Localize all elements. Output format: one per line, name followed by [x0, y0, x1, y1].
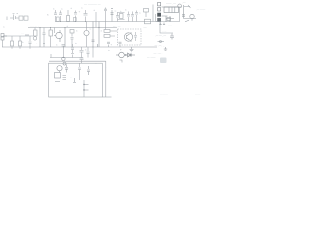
svg-text:.. .: .. .: [21, 32, 24, 35]
svg-text:ik: ik: [56, 45, 58, 47]
resistor R15: [84, 85, 89, 91]
resistor R8: [11, 41, 14, 46]
connector P4: [158, 18, 161, 21]
capacitor C1: [54, 10, 57, 22]
resistor R4: [104, 8, 107, 30]
svg-text:— ——— —: — ——— —: [84, 3, 101, 7]
transistor Q7: [111, 8, 114, 21]
wire drop x20: [19, 36, 21, 41]
right section wire: [160, 22, 173, 33]
transistor Q3: [124, 33, 132, 41]
wire drop x93: [92, 22, 94, 48]
svg-text:ik: ik: [101, 31, 103, 33]
capacitor C7: [131, 12, 134, 22]
node dot A: [98, 27, 99, 28]
transformer taps: [118, 13, 125, 20]
wire input line: [3, 35, 33, 37]
connector P1: [158, 3, 161, 6]
battery B1: [7, 14, 19, 21]
svg-text:. .. .: . .. .: [168, 24, 172, 27]
resistor R10: [49, 30, 53, 36]
ground GND1: [130, 47, 134, 52]
resistor R12: [104, 30, 110, 33]
wire stub x120 y60: [120, 60, 123, 63]
node dot B: [125, 54, 126, 55]
capacitor C20: [87, 66, 90, 75]
wire right column: [182, 5, 185, 19]
svg-text:. ..: . ..: [136, 43, 139, 46]
resistor R17: [145, 19, 151, 24]
wire W2: [49, 60, 106, 62]
node dot D: [83, 84, 84, 85]
resistor bars RB1: [63, 76, 67, 80]
wire inner vertical2: [83, 80, 85, 97]
junction dots rail1: [39, 21, 93, 48]
wire drop x54: [54, 28, 56, 34]
capacitor C2: [59, 11, 62, 22]
transistor Q6: [178, 4, 182, 8]
svg-text:iu: iu: [61, 9, 63, 11]
resistor R11: [70, 30, 74, 34]
capacitor C21: [170, 34, 174, 40]
svg-text:ik: ik: [85, 50, 87, 52]
capacitor C11: [71, 33, 74, 47]
switch S1 box: [19, 16, 23, 20]
capacitor C19: [87, 47, 90, 58]
resistor R13: [104, 35, 110, 38]
svg-text:.— —..—: .— —..—: [155, 35, 166, 38]
svg-text:iu: iu: [3, 27, 5, 29]
resistor R3: [67, 16, 70, 22]
node ring: [160, 41, 162, 43]
capacitor C5: [116, 12, 119, 22]
capacitor C22: [134, 32, 137, 41]
wire top rail R1: [55, 21, 157, 23]
wire drop x93 low: [92, 47, 94, 58]
stub x12: [12, 47, 30, 49]
node stub x97: [97, 44, 99, 47]
resistor R6: [144, 9, 149, 13]
ground marks under connector: [159, 23, 165, 25]
svg-text:x: x: [47, 13, 49, 17]
transistor Q8: [190, 14, 194, 18]
svg-text:ik: ik: [53, 9, 55, 11]
capacitor C23: [65, 65, 68, 73]
svg-text:— .—. ..: — .—. ..: [155, 44, 165, 47]
svg-text:——: ——: [195, 93, 201, 96]
capacitor C15: [62, 45, 66, 58]
label blob right: [160, 58, 167, 64]
wire upper rail R2: [28, 27, 117, 29]
svg-text:.. ...: .. ...: [162, 30, 167, 33]
capacitor C6: [127, 12, 130, 22]
relay K1 box: [24, 16, 28, 20]
svg-text:..: ..: [95, 62, 97, 65]
svg-text:ik: ik: [125, 10, 127, 12]
svg-text:iu: iu: [75, 43, 77, 45]
lamp LP1: [62, 57, 65, 60]
component arrow: [184, 5, 191, 8]
capacitor C12: [92, 40, 95, 42]
svg-text:+: +: [79, 10, 81, 14]
wire right mid: [156, 21, 180, 23]
capacitor C9: [29, 36, 32, 47]
capacitor C10: [43, 28, 46, 48]
svg-text:ik: ik: [76, 31, 78, 33]
capacitor C14: [119, 42, 122, 47]
transistor Q5: [119, 52, 125, 58]
svg-text:iu: iu: [115, 11, 117, 13]
svg-text:+: +: [120, 48, 122, 52]
wire W2 drop: [105, 61, 107, 97]
box filter F1: [164, 7, 179, 13]
wire feed vertical: [152, 5, 154, 22]
wire drop x40: [39, 28, 41, 48]
svg-text:ik: ik: [22, 42, 24, 44]
ground GND2: [164, 47, 167, 50]
svg-text:iu: iu: [81, 8, 83, 10]
resistor R14: [73, 78, 76, 83]
svg-text:———: ———: [160, 93, 168, 96]
wire vertical drop right of box: [102, 96, 111, 98]
svg-text:iu: iu: [108, 50, 110, 52]
node dot F: [63, 57, 64, 58]
svg-text:—— .—: —— .—: [166, 2, 176, 6]
potentiometer VR1: [34, 30, 38, 36]
wire right top: [162, 6, 183, 8]
svg-text:— . —: — . —: [113, 25, 121, 28]
motor M1: [57, 66, 62, 71]
node dot E: [83, 89, 84, 90]
svg-text:...: ...: [70, 76, 72, 79]
svg-text:.—.: .—.: [143, 26, 147, 29]
resistor R16: [167, 18, 171, 21]
svg-text:.. .. ... .: .. .. ... .: [30, 24, 39, 28]
resistor R7: [25, 34, 29, 36]
wire node stub: [95, 12, 97, 28]
wire inner vertical: [78, 63, 81, 80]
enclosure box PSU: [49, 63, 103, 97]
capacitor C18: [80, 47, 84, 63]
lamp LP2: [63, 62, 66, 65]
node dot C: [130, 54, 131, 55]
wire drop x65: [64, 28, 66, 48]
capacitor C17: [71, 44, 74, 58]
wire stub x51: [50, 54, 52, 58]
resistor R2a: [56, 17, 59, 22]
svg-text:iu: iu: [139, 13, 141, 15]
connector P3: [158, 13, 161, 16]
wire bottom rail R4: [2, 46, 157, 48]
connector P2: [158, 8, 161, 11]
svg-text:..: ..: [105, 69, 107, 72]
meter M2: [33, 37, 37, 41]
wire link: [158, 41, 165, 43]
wire stub x155: [155, 14, 157, 22]
wire drop x99: [98, 22, 100, 48]
wire stub bottom left: [55, 81, 60, 83]
wire drop x12: [11, 36, 13, 41]
svg-text:.—: .—: [182, 1, 186, 5]
capacitor C3: [74, 11, 77, 22]
transistor Q1: [56, 32, 62, 38]
transistor Q2: [84, 30, 89, 35]
wire mid-low rail R5: [50, 57, 83, 59]
resistor R2b: [73, 18, 76, 22]
diode D2: [169, 7, 175, 13]
svg-text:— ——: — ——: [147, 57, 156, 60]
wire right row: [184, 18, 197, 20]
transformer T9 box: [55, 73, 61, 79]
connector J1: [1, 34, 7, 48]
resistor R5: [120, 14, 124, 19]
component cluster right: [162, 16, 175, 22]
svg-text:.— ——: .— ——: [196, 9, 206, 12]
svg-text:ik: ik: [94, 10, 96, 12]
svg-text:..: ..: [36, 43, 38, 45]
capacitor C13: [107, 42, 110, 47]
svg-text:iu: iu: [90, 29, 92, 31]
capacitor C8: [135, 11, 138, 22]
svg-text:—. .— .: —. .— .: [154, 52, 163, 55]
diode D1: [128, 53, 132, 57]
svg-text:+: +: [120, 9, 122, 13]
capacitor C4: [84, 10, 88, 22]
dashed box U1: [118, 29, 142, 45]
resistor R9: [19, 41, 22, 46]
svg-text:+: +: [111, 44, 113, 47]
svg-text:ik: ik: [71, 8, 73, 10]
